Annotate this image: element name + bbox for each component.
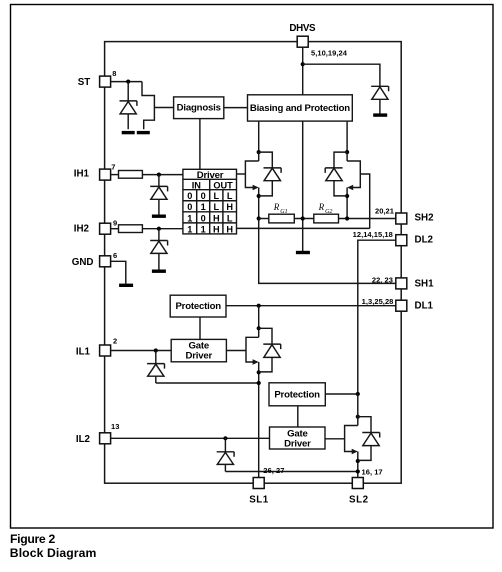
svg-text:0: 0 [201,191,206,201]
svg-text:0: 0 [187,191,192,201]
wire buffer output to Diagnosis [154,107,173,109]
node ST junction [126,80,130,84]
wire ST diode branch [127,82,129,101]
diode D-Q3 body [259,328,281,372]
wire IH1 to resistor [111,174,119,176]
svg-text:1: 1 [187,213,192,223]
wire Diagnosis to Biasing [224,107,248,109]
pin SH2 [375,206,434,224]
IC outline [105,42,402,484]
svg-text:Driver: Driver [284,439,311,450]
svg-text:1: 1 [201,202,206,212]
svg-text:12,14,15,18: 12,14,15,18 [353,230,393,239]
svg-text:5,10,19,24: 5,10,19,24 [311,49,348,58]
svg-text:Protection: Protection [175,301,221,312]
wire Gate Driver2 to Q4 gate [325,438,345,440]
block Gate Driver 1 [171,339,226,361]
svg-text:1: 1 [187,224,192,234]
transistor Q2 high-side [345,150,360,219]
node IH1 junction [157,173,161,177]
diode D-IH2 clamp [150,241,167,270]
wire IL1 to Gate Driver 1 [111,350,172,352]
wire ST input to buffer [111,81,142,83]
svg-text:G1: G1 [280,209,287,215]
wire Protection2 to Gate Driver 2 [297,406,299,427]
node IH2 junction [157,227,161,231]
node IL2 junction [223,436,227,440]
pin SH1 [372,276,434,290]
node SL2 junction [356,469,360,473]
svg-text:IH2: IH2 [74,224,90,235]
wire GND to ground [111,261,126,284]
svg-text:H: H [226,202,233,212]
svg-text:R: R [318,202,325,212]
wire RG1 to RG2 [294,218,314,220]
svg-text:SH2: SH2 [415,213,435,224]
wire DL1 connection [226,305,396,307]
resistor R-IH1 [119,171,143,179]
wire IH1 diode branch [158,175,160,187]
svg-text:GND: GND [72,257,94,268]
diode D-DHVS clamp [371,86,388,113]
transistor Q3 low-side 1 [246,326,261,477]
block Biasing and Protection [248,95,353,121]
wire Biasing to Q1 drain [258,121,260,152]
node DHVS junction [301,62,305,66]
wire SH1 connection [259,219,396,284]
node SL1 junction [257,381,261,385]
transistor Q1 high-side [245,150,260,219]
ST input buffer U-ST [142,82,154,130]
wire IL2 to Gate Driver 2 [111,437,270,439]
svg-text:2: 2 [113,337,117,346]
svg-text:7: 7 [111,162,115,171]
block Diagnosis [174,97,224,119]
svg-text:DL2: DL2 [415,235,434,246]
svg-text:G2: G2 [325,209,332,215]
svg-text:IN: IN [192,180,202,190]
pin IL2 [76,422,120,445]
svg-text:Gate: Gate [287,428,308,439]
wire DL2 pin connection [358,240,396,394]
pin ST [78,69,117,88]
svg-text:9: 9 [113,219,117,228]
diode D-IH1 clamp [150,186,167,214]
pin IH2 [74,219,117,235]
pin GND [72,251,118,268]
svg-text:L: L [213,202,219,212]
wire IH2 to resistor [111,228,119,230]
svg-text:Protection: Protection [274,390,320,401]
svg-text:6: 6 [113,251,117,260]
diode D-IL2 clamp [217,452,234,472]
svg-text:DL1: DL1 [415,300,434,311]
svg-text:H: H [213,213,220,223]
ground for IH1 diode [152,215,166,218]
pin DL2 [353,230,434,246]
wire Driver to Q1 gate [237,173,246,175]
transistor Q4 low-side 2 [345,394,360,478]
wire DHVS to top diode [303,64,380,86]
ground for ST diode [122,131,135,134]
svg-text:SL1: SL1 [249,495,269,506]
svg-text:22, 23: 22, 23 [372,276,393,285]
block Protection 2 [269,383,325,406]
diode D-Q1 body [259,152,281,196]
wire Protection2 output [326,393,358,395]
wire Diagnosis to Driver [199,119,201,170]
wire DHVS to Biasing [302,47,304,95]
svg-text:SL2: SL2 [349,495,369,506]
wire IL1 diode branch [155,351,157,364]
node R row center [301,216,305,220]
svg-text:26, 27: 26, 27 [263,466,284,475]
svg-text:IH1: IH1 [74,168,90,179]
wire Protection1 to Gate Driver 1 [199,317,201,339]
node IL1 junction [154,348,158,352]
pin DL1 [362,297,434,311]
svg-text:ST: ST [78,77,91,88]
svg-text:Diagnosis: Diagnosis [177,103,221,114]
block Gate Driver 2 [270,427,326,450]
resistor RG1 [269,202,295,223]
diode D-Q2 body [325,152,347,196]
wire RG2 to SH2 pin [339,218,396,220]
svg-text:IL1: IL1 [76,346,91,357]
svg-text:16, 17: 16, 17 [362,468,383,477]
wire IH1 resistor to Driver [142,174,183,176]
svg-text:Figure 2: Figure 2 [10,532,55,546]
ground for GND pin [119,284,133,287]
node R row right [345,216,349,220]
wire IL2 diode branch [224,438,226,452]
node DL1 junction [257,304,261,308]
svg-text:0: 0 [187,202,192,212]
svg-text:L: L [227,213,233,223]
wire DL1 to Q3 drain [258,306,260,329]
pin IH1 [74,162,116,180]
resistor RG2 [314,202,339,223]
pin SL2 [349,468,383,506]
diode D-IL1 clamp [147,364,164,383]
svg-text:L: L [213,191,219,201]
svg-text:1,3,25,28: 1,3,25,28 [362,297,394,306]
pin IL1 [76,337,117,358]
ground for ST buffer [137,131,150,134]
ground for DHVS diode [373,113,387,116]
wire Biasing to central ground [302,121,304,251]
wire IH2 diode branch [158,229,160,241]
ground central [296,251,310,254]
svg-text:L: L [227,191,233,201]
node Protection2 junction [356,392,360,396]
resistor R-IH2 [119,225,143,233]
pin DHVS [289,23,347,57]
svg-text:Biasing and Protection: Biasing and Protection [250,103,350,114]
node R row left [257,216,261,220]
svg-text:1: 1 [201,224,206,234]
svg-text:H: H [226,224,233,234]
pin SL1 [249,466,284,506]
svg-text:Driver: Driver [186,350,213,361]
wire IH2 resistor to Driver [142,228,183,230]
block Driver with truth table [183,169,237,234]
svg-text:DHVS: DHVS [289,23,316,34]
svg-text:OUT: OUT [213,180,233,190]
svg-text:R: R [273,202,280,212]
wire Gate Driver1 to Q3 gate [226,350,246,352]
svg-text:Block Diagram: Block Diagram [10,546,97,560]
diode D-Q4 body [358,417,380,461]
svg-text:IL2: IL2 [76,434,91,445]
ground for IH2 diode [152,270,166,273]
wire SL1 rail [156,382,259,384]
svg-text:0: 0 [201,213,206,223]
svg-text:H: H [213,224,220,234]
svg-text:20,21: 20,21 [375,206,394,215]
wire Biasing to Q2 drain [346,121,348,152]
block Protection 1 [170,295,226,317]
wire SL2 rail [225,471,357,473]
diode D-ST clamp [120,101,137,129]
svg-text:8: 8 [112,69,116,78]
wire R row left [259,218,269,220]
svg-text:13: 13 [111,422,119,431]
svg-text:SH1: SH1 [415,278,435,289]
wire Q2 gate to Driver [237,174,370,228]
